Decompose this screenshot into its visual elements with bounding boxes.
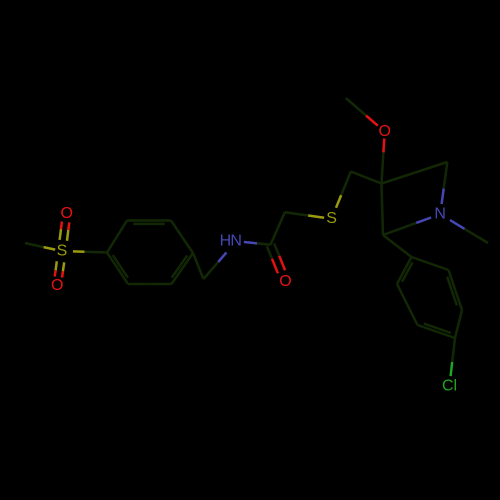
bond C=O xyxy=(267,243,285,273)
bond ring2 b (double) xyxy=(447,270,462,310)
bond O-C4 xyxy=(382,139,385,184)
bond O-CH3 xyxy=(346,98,378,126)
bond S=O top xyxy=(60,222,70,241)
bond S=O bottom xyxy=(55,261,64,277)
bond ring1 d (double) xyxy=(172,253,194,284)
bond C-Cl xyxy=(451,338,455,376)
svg-text:O: O xyxy=(60,205,72,222)
bond ring1 a xyxy=(107,221,127,253)
svg-text:O: O xyxy=(51,277,63,294)
svg-text:S: S xyxy=(326,210,337,227)
bond C6-C4 xyxy=(382,184,384,236)
svg-text:H: H xyxy=(220,233,232,250)
bond N-C6 xyxy=(383,218,431,236)
bond ring1 f (double) xyxy=(107,253,128,285)
bond ring2 a xyxy=(412,257,449,270)
bond ring2 f (double) xyxy=(397,257,413,284)
svg-text:N: N xyxy=(230,233,242,250)
bond C-CH2 xyxy=(271,212,285,245)
bond S-aryl xyxy=(73,251,107,252)
svg-text:S: S xyxy=(57,243,68,260)
bond ring2 d (double) xyxy=(418,324,456,338)
bond N-CH3 xyxy=(450,220,488,243)
bond N-C2 xyxy=(442,162,448,204)
bond ring1 e xyxy=(128,283,172,286)
bond S-CH2/C xyxy=(336,172,351,208)
bond ring2 c xyxy=(455,310,462,338)
bond C4..C2 ring path xyxy=(382,162,448,184)
bond ring1 b (double) xyxy=(127,221,171,224)
bond ring1 c xyxy=(171,221,193,254)
bond benzylic CH2 xyxy=(193,253,204,279)
bond ring2 e xyxy=(397,284,418,325)
svg-text:N: N xyxy=(434,206,446,223)
bond C-C4 xyxy=(351,172,382,184)
svg-text:Cl: Cl xyxy=(442,378,457,395)
bond N-CH2 xyxy=(204,253,227,280)
bond C6-phenyl xyxy=(383,235,412,257)
svg-text:O: O xyxy=(378,123,390,140)
bond N-C(=O) xyxy=(244,242,271,245)
bond CH2-S xyxy=(285,212,324,217)
bond methyl of methylsulfonyl xyxy=(25,243,55,250)
svg-text:O: O xyxy=(279,273,291,290)
